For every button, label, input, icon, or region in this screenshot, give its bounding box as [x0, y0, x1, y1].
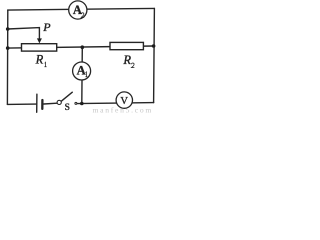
svg-text:V: V: [120, 96, 128, 107]
ammeter A1 circle: [73, 62, 91, 80]
rheostat R1 box: [22, 44, 57, 51]
switch S right contact: [75, 102, 77, 104]
wire: bottom left segment to battery: [7, 103, 36, 105]
svg-text:A: A: [77, 64, 86, 78]
switch S pivot contact: [57, 100, 61, 104]
junction dot A1 bottom: [80, 102, 84, 106]
svg-text:S: S: [65, 103, 70, 113]
wire: top, left corner to right corner: [8, 8, 155, 10]
svg-text:R: R: [35, 52, 44, 66]
slider arrow head P: [37, 38, 42, 43]
wire: switch to bottom-right corner: [77, 103, 153, 104]
svg-text:R: R: [122, 53, 131, 67]
junction dot left middle: [6, 46, 10, 50]
switch S blade (open): [61, 92, 72, 101]
junction dot right middle: [152, 44, 156, 48]
ammeter A2 circle: [69, 1, 87, 19]
resistor R2 box: [110, 42, 143, 49]
wire: A1 branch vertical: [81, 47, 84, 103]
wire: middle row left dot to right dot: [8, 46, 154, 48]
junction dot left upper: [6, 27, 10, 31]
svg-text:P: P: [42, 20, 51, 34]
wire: slider feed from left rail: [8, 28, 40, 40]
voltmeter V circle: [116, 92, 132, 108]
svg-text:A: A: [73, 3, 82, 17]
wire: left vertical: [6, 10, 8, 104]
wire: battery to switch: [44, 102, 57, 105]
wire: right vertical: [153, 8, 156, 102]
battery negative plate (short thick): [41, 100, 43, 109]
battery positive plate (long): [36, 94, 38, 112]
junction dot A1 top: [81, 45, 85, 49]
background: [0, 0, 162, 115]
